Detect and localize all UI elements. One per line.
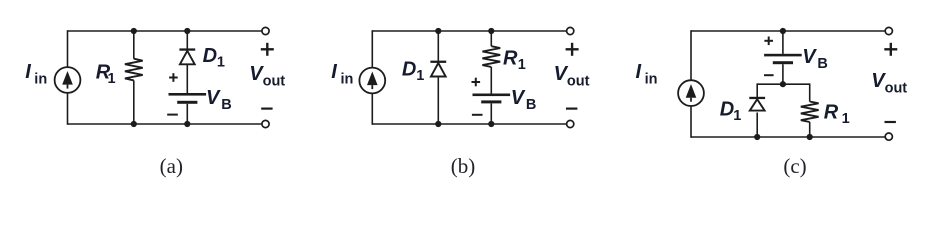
resistor R1 (a) bbox=[125, 59, 143, 81]
node: R1 top junction (b) bbox=[488, 28, 494, 34]
output minus sign (c) bbox=[885, 121, 896, 123]
circuit (b): wire D1 bottom stub bbox=[437, 76, 439, 124]
node: R1 bottom junction (a) bbox=[131, 121, 137, 127]
diode D1 (a) bbox=[179, 48, 195, 64]
svg-text:B: B bbox=[221, 97, 231, 113]
circuit (c): wire top rail bbox=[691, 30, 885, 32]
svg-text:I: I bbox=[25, 61, 31, 83]
svg-text:out: out bbox=[567, 73, 590, 89]
svg-text:V: V bbox=[802, 46, 817, 68]
circuit (b): wire D1 top stub bbox=[437, 31, 439, 61]
circuit (b): wire left branch lower bbox=[371, 93, 373, 124]
circuit (c): wire left branch upper bbox=[690, 30, 692, 80]
svg-text:1: 1 bbox=[416, 68, 424, 84]
resistor R1 (b) bbox=[482, 46, 500, 67]
svg-text:in: in bbox=[341, 72, 354, 88]
diode D1 (c) bbox=[749, 97, 765, 111]
circuit (b): wire left branch upper bbox=[371, 30, 373, 67]
current source I_in (c) bbox=[678, 80, 704, 106]
node: R1 top junction (a) bbox=[131, 28, 137, 34]
battery plus sign (c) bbox=[764, 37, 773, 46]
circuit (c): wire bottom rail bbox=[691, 136, 885, 138]
node: D1 top junction (a) bbox=[184, 28, 190, 34]
circuit (a): wire bottom rail bbox=[68, 123, 262, 125]
svg-text:1: 1 bbox=[518, 57, 526, 73]
svg-text:V: V bbox=[206, 87, 221, 109]
circuit (b): wire R1 top stub bbox=[490, 31, 492, 46]
svg-text:D: D bbox=[402, 58, 416, 80]
svg-text:R: R bbox=[824, 102, 839, 124]
circuit (a): wire battery-to-bottom bbox=[186, 104, 188, 124]
battery VB (a) bbox=[169, 93, 207, 104]
svg-text:1: 1 bbox=[217, 55, 225, 71]
node: mid junction (c) bbox=[780, 81, 786, 87]
circuit (b): wire R1-to-battery bbox=[490, 67, 492, 94]
battery minus sign (c) bbox=[764, 74, 774, 76]
terminal bottom (b) bbox=[567, 120, 574, 127]
terminal bottom (c) bbox=[885, 133, 892, 140]
svg-text:V: V bbox=[511, 87, 526, 109]
node: D1 top junction (b) bbox=[435, 28, 441, 34]
circuit (b): wire battery-to-bottom bbox=[490, 103, 492, 124]
node: D1 bottom junction (b) bbox=[435, 121, 441, 127]
battery VB (b) bbox=[473, 94, 511, 104]
resistor R1 (c) bbox=[801, 102, 819, 123]
circuit (c): wire battery top stub bbox=[782, 31, 784, 54]
svg-text:out: out bbox=[263, 73, 286, 89]
circuit (c): wire mid rail bbox=[757, 83, 810, 85]
battery plus sign (a) bbox=[169, 73, 178, 82]
battery minus sign (b) bbox=[472, 114, 483, 116]
current source I_in (b) bbox=[359, 68, 385, 94]
node: top rail junction (c) bbox=[780, 28, 786, 34]
circuit (c): wire left branch lower bbox=[690, 106, 692, 138]
svg-text:I: I bbox=[331, 61, 337, 83]
circuit (a): wire R1 top stub bbox=[133, 31, 135, 59]
svg-text:1: 1 bbox=[108, 71, 116, 87]
circuit (c): wire D1 bottom stub bbox=[756, 113, 758, 138]
circuit (a): wire D1-to-battery bbox=[186, 64, 188, 93]
node: R1 bottom junction (b) bbox=[488, 121, 494, 127]
circuit (b): wire top rail bbox=[372, 30, 566, 32]
svg-text:B: B bbox=[817, 56, 827, 72]
svg-text:(b): (b) bbox=[451, 154, 476, 178]
circuit (b): wire bottom rail bbox=[372, 123, 566, 125]
output minus sign (a) bbox=[261, 107, 272, 109]
svg-text:I: I bbox=[636, 61, 642, 83]
output plus sign (c) bbox=[884, 43, 897, 56]
battery minus sign (a) bbox=[167, 114, 178, 116]
node: D1 bottom junction (c) bbox=[754, 134, 760, 140]
terminal top (c) bbox=[885, 27, 892, 34]
circuit (a): wire left branch lower bbox=[67, 93, 69, 125]
output plus sign (b) bbox=[566, 43, 579, 56]
output minus sign (b) bbox=[566, 107, 577, 109]
circuit (a): wire D1 top stub bbox=[186, 31, 188, 49]
circuit (c): wire R1 top stub bbox=[809, 83, 811, 101]
svg-text:out: out bbox=[885, 80, 908, 96]
svg-text:(a): (a) bbox=[160, 154, 183, 178]
circuit (a): wire left branch upper bbox=[67, 30, 69, 67]
diode D1 (b) bbox=[430, 61, 446, 77]
output plus sign (a) bbox=[261, 43, 274, 56]
svg-text:D: D bbox=[720, 98, 734, 120]
battery VB (c) bbox=[764, 54, 802, 64]
svg-text:in: in bbox=[645, 72, 658, 88]
svg-text:1: 1 bbox=[733, 108, 741, 124]
svg-text:R: R bbox=[503, 48, 518, 70]
circuit (a): wire R1 bottom stub bbox=[133, 80, 135, 124]
circuit (c): wire R1 bottom stub bbox=[809, 122, 811, 137]
battery plus sign (b) bbox=[472, 78, 481, 87]
svg-text:1: 1 bbox=[842, 111, 850, 127]
terminal top (b) bbox=[567, 27, 574, 34]
current source I_in (a) bbox=[55, 67, 81, 93]
circuit (c): wire battery-to-midnode bbox=[782, 64, 784, 84]
circuit (c): wire D1 top stub bbox=[756, 83, 758, 97]
node: D1 bottom junction (a) bbox=[184, 121, 190, 127]
terminal bottom (a) bbox=[262, 120, 269, 127]
svg-text:in: in bbox=[34, 72, 47, 88]
svg-text:(c): (c) bbox=[783, 154, 806, 178]
svg-text:B: B bbox=[526, 97, 536, 113]
node: R1 bottom junction (c) bbox=[807, 134, 813, 140]
circuit (a): wire top rail bbox=[68, 30, 262, 32]
terminal top (a) bbox=[262, 27, 269, 34]
svg-text:D: D bbox=[203, 45, 217, 67]
